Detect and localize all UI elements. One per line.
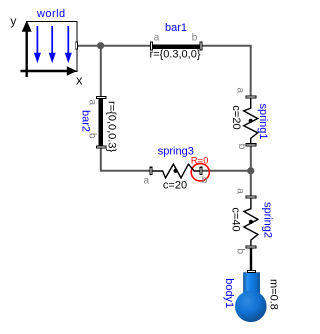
spring1 coil [244,97,258,145]
spring2 frame_a connector [246,195,257,198]
svg-text:x: x [76,73,83,88]
spring3 frame_a connector [149,167,152,176]
world y-axis [22,21,32,78]
bar1 frame_a connector [150,42,153,51]
spring3 pin label b [202,175,208,186]
svg-text:a: a [234,88,245,94]
svg-text:r={0,0,0.3}: r={0,0,0.3} [106,101,118,152]
svg-text:m=0.8: m=0.8 [268,279,280,310]
spring3 red fixed-rotation circle R=0 [191,164,209,181]
svg-text:body1: body1 [223,278,235,308]
spring1 pin label b [236,144,247,150]
bar1 pin label b [192,33,198,44]
spring3 pin label a [144,176,150,187]
wire spring3.frame_b to junction2 [203,170,251,172]
bar1 label "bar1" [165,22,187,34]
svg-text:world: world [36,8,66,20]
world axis label y [10,14,16,28]
junction node 2 [247,167,254,174]
spring2 label "spring2" [262,202,274,238]
svg-text:bar1: bar1 [165,22,187,34]
world axis label x [76,73,83,88]
svg-text:bar2: bar2 [80,110,92,132]
spring2 coil [244,197,258,247]
svg-text:spring1: spring1 [257,103,269,139]
wire bar2.frame_b to spring3.frame_a [101,148,150,171]
svg-text:R=0: R=0 [191,155,209,165]
spring1 label "spring1" [257,103,269,139]
bar2 pin label a [87,100,98,106]
svg-text:b: b [236,144,247,150]
world x-axis [21,66,78,76]
wire world.frame_b to bar1.frame_a [78,45,151,47]
spring3 red label R=0 [191,155,209,165]
wire spring1.frame_b to junction2 [250,146,252,171]
svg-text:a: a [144,176,150,187]
spring2 value label c=40 [230,207,242,231]
svg-text:r={0.3,0,0}: r={0.3,0,0} [149,49,200,61]
spring3 frame_b connector [200,167,203,176]
bar2 frame_a connector [96,96,107,99]
wire junction1 down to bar2.frame_a [100,46,102,97]
bar2 frame_b connector [96,146,107,149]
svg-text:c=20: c=20 [163,180,187,192]
bar2 pin label b [87,133,98,139]
body1 cylinder rod [244,273,260,297]
svg-text:b: b [192,33,198,44]
spring1 frame_a connector [246,95,257,98]
spring3 value label c=20 [163,180,187,192]
spring2 pin label a [235,188,246,194]
bar2 label "bar2" [80,110,92,132]
svg-text:y: y [10,14,16,28]
spring2 mass dot [249,220,253,224]
svg-text:spring3: spring3 [158,146,194,158]
spring3 label "spring3" [158,146,194,158]
world label "world" [36,8,66,20]
bar1 pin label a [154,33,160,44]
spring1 frame_b connector [246,143,257,146]
bar1 value label r={0.3,0,0} [149,49,200,61]
bar1 frame_b connector [199,42,202,51]
spring3 mass dot [174,169,178,173]
wire bar1.frame_b to spring1.frame_a [203,46,251,96]
spring2 frame_b connector [246,245,257,248]
world component box [27,22,78,72]
svg-text:spring2: spring2 [262,202,274,238]
world gravity arrow 2 [49,26,56,63]
svg-text:b: b [235,249,246,255]
svg-text:a: a [235,188,246,194]
world frame_b connector [75,42,78,50]
spring1 value label c=20 [230,105,242,129]
body1 value label m=0.8 [268,279,280,310]
svg-text:b: b [87,133,98,139]
spring1 mass dot [249,119,253,123]
svg-text:a: a [87,100,98,106]
body1 frame_a connector [247,270,256,273]
world gravity arrow 3 [65,26,72,63]
svg-text:c=20: c=20 [230,105,242,129]
junction node 1 [97,42,104,49]
svg-text:a: a [154,33,160,44]
spring3 coil [151,164,201,178]
bar2 value label r={0,0,0.3} [106,101,118,152]
body1 label "body1" [223,278,235,308]
bar2 body bar [99,98,103,146]
bar1 body bar [153,45,201,49]
world gravity arrow 1 [34,26,41,63]
wire junction2 to spring2.frame_a [250,171,252,196]
body1 sphere [235,291,267,323]
svg-text:c=40: c=40 [230,207,242,231]
wire spring2.frame_b to body1.frame_a (black) [250,248,252,271]
spring2 pin label b [235,249,246,255]
svg-text:b: b [202,175,208,186]
spring1 pin label a [234,88,245,94]
